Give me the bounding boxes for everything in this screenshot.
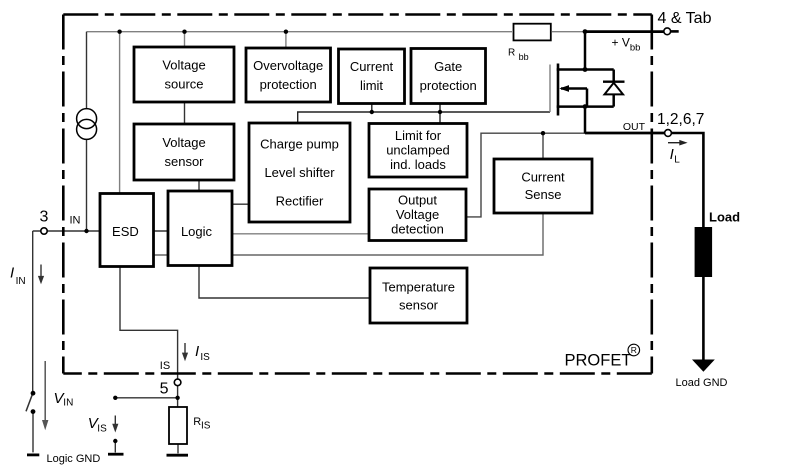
svg-text:Sense: Sense <box>525 187 562 202</box>
box output voltage detection <box>369 189 466 241</box>
resistor RIS <box>169 407 187 444</box>
svg-text:OUT: OUT <box>623 121 646 133</box>
wire current source to IN node <box>86 139 88 231</box>
wire IS node to VIS tap <box>115 397 177 399</box>
label IIN <box>10 265 26 288</box>
box limit for unclamped ind loads <box>369 124 467 178</box>
pin OUT circle <box>665 130 672 137</box>
mosfet Q1 source lead <box>557 105 614 108</box>
wire pin4 stub <box>671 30 679 33</box>
dash-dot device border <box>63 15 652 374</box>
diode D1 triangle <box>605 83 624 95</box>
svg-text:limit: limit <box>360 78 383 93</box>
junction node source diode <box>583 104 588 109</box>
current source I1 <box>77 109 97 140</box>
ground RIS <box>167 454 189 457</box>
svg-text:I: I <box>670 146 674 163</box>
label VIS <box>88 415 107 434</box>
pin 3 circle <box>41 228 47 234</box>
svg-text:protection: protection <box>420 78 477 93</box>
label VIN <box>54 390 74 409</box>
junction node switch top <box>31 391 36 396</box>
wire pin3 down to switch <box>32 231 34 392</box>
mosfet Q1 body lead <box>561 87 587 90</box>
svg-text:sensor: sensor <box>164 154 204 169</box>
svg-text:sensor: sensor <box>399 298 439 313</box>
svg-text:unclamped: unclamped <box>386 143 450 158</box>
box gate protection <box>411 49 486 104</box>
wire rail from Rbb to drain node <box>552 31 585 33</box>
svg-text:IS: IS <box>201 420 211 431</box>
svg-text:ESD: ESD <box>112 224 139 239</box>
switch blade <box>26 394 33 411</box>
wire gate drive to MOSFET gate <box>298 112 550 123</box>
svg-text:Voltage: Voltage <box>162 57 205 72</box>
wire RIS to ground <box>177 444 179 453</box>
svg-text:Load: Load <box>709 209 740 224</box>
arrow IL <box>668 140 688 146</box>
mosfet Q1 drain lead <box>557 68 614 71</box>
junction node at drain rail <box>583 29 588 34</box>
svg-text:Gate: Gate <box>434 59 462 74</box>
wire Logic to Charge pump <box>232 203 249 205</box>
junction node drain diode <box>583 67 588 72</box>
svg-text:3: 3 <box>40 208 49 225</box>
wire rail stub to Voltage source <box>184 32 186 48</box>
wire Vbb thick to pin4 <box>585 30 664 33</box>
box voltage source <box>134 47 234 102</box>
wire rail stub to Overvoltage protection <box>285 32 287 49</box>
diode D1 cathode bar <box>603 80 625 82</box>
wire ESD Logic to Current Sense <box>154 213 544 255</box>
mosfet Q1 body tie <box>586 89 589 107</box>
wire source vertical to OUT <box>584 107 587 134</box>
svg-text:Load GND: Load GND <box>676 377 728 389</box>
svg-text:1,2,6,7: 1,2,6,7 <box>657 111 704 128</box>
svg-text:PROFET: PROFET <box>565 351 632 369</box>
arrow VIS <box>112 416 118 433</box>
wire gate lead vertical <box>549 65 551 113</box>
svg-text:Output: Output <box>398 193 437 208</box>
Load GND arrowhead <box>692 360 715 372</box>
svg-text:I: I <box>10 265 14 282</box>
box voltage sensor <box>134 124 234 180</box>
box overvoltage protection <box>246 48 331 102</box>
wire OUT pin to load <box>671 133 703 227</box>
load block <box>695 227 713 277</box>
label RIS <box>193 416 210 431</box>
svg-text:bb: bb <box>630 43 641 54</box>
wire Output Voltage detection to OUT net <box>466 133 585 217</box>
wire switch to Logic GND <box>32 413 34 453</box>
diode D1 cathode vertical <box>612 70 615 82</box>
arrow IIS <box>182 343 188 361</box>
junction node switch bottom <box>31 409 36 414</box>
box logic <box>168 191 232 266</box>
wire Voltage source to Voltage sensor <box>184 102 186 124</box>
wire ESD to IS pin <box>120 267 178 380</box>
junction node OUT sense <box>541 131 545 135</box>
svg-text:IN: IN <box>16 276 26 287</box>
label IL <box>670 146 681 166</box>
svg-text:5: 5 <box>160 381 169 398</box>
svg-text:IN: IN <box>70 215 81 227</box>
svg-text:detection: detection <box>391 221 444 236</box>
svg-text:R: R <box>631 345 637 355</box>
svg-text:Voltage: Voltage <box>162 135 205 150</box>
box current limit <box>339 49 405 104</box>
mosfet Q1 body arrow <box>559 85 569 92</box>
svg-text:R: R <box>508 48 515 59</box>
svg-text:Logic: Logic <box>181 224 213 239</box>
svg-text:IN: IN <box>63 398 73 409</box>
diode D1 anode vertical <box>612 94 615 106</box>
junction node IS <box>175 396 179 400</box>
junction node VIS top <box>113 396 117 400</box>
wire Logic to Output Voltage detection <box>232 233 369 235</box>
wire IS pin to RIS <box>177 386 179 407</box>
svg-text:Limit for: Limit for <box>395 128 442 143</box>
svg-text:Current: Current <box>350 59 394 74</box>
pin 4 circle <box>664 28 671 35</box>
svg-text:IS: IS <box>160 360 170 372</box>
svg-text:Rectifier: Rectifier <box>276 193 324 208</box>
wire OUT net to Current Sense <box>542 133 544 159</box>
wire Current limit stub <box>371 104 373 113</box>
box current sense <box>494 159 592 213</box>
wire top supply rail <box>87 31 513 33</box>
wire rail corner to current source <box>86 32 88 109</box>
box ESD <box>100 194 154 267</box>
arrow IIN <box>38 265 44 285</box>
ground VIS <box>108 453 124 456</box>
svg-text:4 & Tab: 4 & Tab <box>658 10 712 27</box>
label PROFET <box>565 344 640 369</box>
svg-text:Overvoltage: Overvoltage <box>253 58 323 73</box>
junction node VIS bottom <box>113 439 117 443</box>
svg-text:Level shifter: Level shifter <box>264 165 335 180</box>
label IIS <box>195 343 210 363</box>
svg-text:IS: IS <box>200 352 210 363</box>
svg-text:ind. loads: ind. loads <box>390 157 446 172</box>
svg-text:source: source <box>164 76 203 91</box>
junction node gate protection <box>438 110 442 114</box>
wire rail stub to ESD <box>119 32 121 194</box>
box temperature sensor <box>370 268 467 323</box>
resistor Rbb <box>514 24 551 41</box>
arrow VIN <box>42 361 48 430</box>
label +Vbb <box>612 35 641 53</box>
svg-text:Temperature: Temperature <box>382 280 455 295</box>
svg-text:Current: Current <box>521 170 565 185</box>
svg-text:Voltage: Voltage <box>396 207 439 222</box>
box charge pump level shifter rectifier <box>249 123 350 222</box>
pin 5 circle <box>174 379 181 386</box>
svg-text:L: L <box>674 155 680 166</box>
svg-text:+ V: + V <box>612 35 630 49</box>
wire Voltage sensor to Logic <box>198 180 200 191</box>
junction node on rail at overvoltage protection <box>284 30 288 34</box>
wire IN from pin to Logic <box>33 230 168 232</box>
label Rbb <box>508 48 529 63</box>
svg-text:protection: protection <box>260 77 317 92</box>
svg-text:bb: bb <box>519 52 529 62</box>
wire Logic to Temperature sensor <box>199 266 370 299</box>
wire Gate protection stub <box>439 104 441 124</box>
wire load to Load GND <box>702 277 705 360</box>
wire drain vertical <box>584 30 587 69</box>
wire OUT thick to pin <box>585 132 665 135</box>
junction node IN <box>84 229 88 233</box>
svg-text:IS: IS <box>97 423 107 434</box>
svg-text:Logic GND: Logic GND <box>47 453 101 465</box>
wire VIS tap to ground <box>114 441 116 453</box>
junction node current limit <box>370 110 374 114</box>
junction node on rail at ESD stub <box>117 30 121 34</box>
junction node on rail at voltage source <box>182 30 186 34</box>
mosfet Q1 gate bar <box>557 64 560 116</box>
ground logic GND <box>27 453 39 456</box>
svg-text:Charge pump: Charge pump <box>260 136 339 151</box>
svg-text:I: I <box>195 343 199 360</box>
